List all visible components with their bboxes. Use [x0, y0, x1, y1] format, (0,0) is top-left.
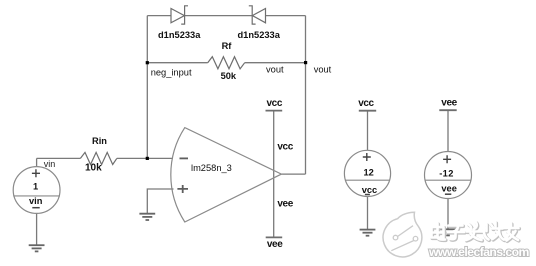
svg-text:12: 12 [364, 167, 374, 177]
resistor Rin zigzag [80, 152, 116, 164]
V2 minus symbol [365, 194, 370, 196]
wire top horizontal left segment [147, 15, 171, 17]
wire left vertical (neg_input net) [146, 16, 148, 159]
V1 chord line [13, 195, 60, 197]
wire Rin to op-amp minus input [117, 157, 173, 159]
svg-text:vcc: vcc [267, 98, 283, 109]
watermark logo inner link [391, 226, 413, 251]
junction dot at Rin / minus input [146, 157, 149, 160]
V2 plus symbol [363, 153, 371, 161]
V2 chord line [345, 179, 389, 181]
op-amp plus input symbol [177, 185, 188, 193]
svg-text:vcc: vcc [277, 141, 293, 152]
V1 minus symbol [32, 207, 39, 209]
wire vee source top stem [447, 110, 449, 151]
watermark logo circle with tail [383, 212, 422, 257]
wire vin source bottom [36, 213, 38, 245]
svg-text:10k: 10k [85, 163, 102, 174]
svg-text:50k: 50k [221, 71, 237, 81]
svg-text:vin: vin [29, 196, 43, 206]
svg-text:Rin: Rin [92, 136, 107, 146]
vee supply bar below op-amp [266, 236, 283, 238]
svg-text:vee: vee [441, 183, 457, 193]
ground at op-amp plus input [139, 214, 155, 220]
svg-text:www.elecfans.com: www.elecfans.com [428, 245, 530, 259]
svg-text:d1n5233a: d1n5233a [158, 30, 201, 40]
svg-text:vee: vee [267, 239, 283, 250]
junction dot vout at mid wire [304, 61, 307, 64]
wire vcc source top stem [367, 111, 369, 151]
diode D1 d1n5233a (left zener, cathode right) [171, 6, 188, 24]
resistor Rf zigzag [208, 57, 245, 69]
voltage source V2 (+12) circle [344, 150, 390, 196]
wire op-amp supply vertical vcc to vee [273, 111, 275, 238]
wire top horizontal right segment [266, 15, 306, 17]
svg-text:vout: vout [314, 65, 332, 75]
voltage source V1 vin circle [13, 167, 60, 214]
V3 minus symbol [445, 193, 451, 195]
svg-text:vee: vee [441, 98, 457, 109]
ground under V1 [29, 245, 45, 251]
svg-text:neg_input: neg_input [151, 67, 192, 77]
V3 chord line [425, 179, 470, 181]
voltage source V3 (-12) circle [425, 152, 472, 199]
svg-text:Rf: Rf [222, 41, 233, 51]
wire mid horizontal right of Rf [245, 62, 306, 64]
wire top horizontal middle segment [185, 15, 253, 17]
svg-text:vee: vee [277, 198, 293, 209]
watermark chinese text 电子发烧友 (stylized strokes) [432, 223, 519, 241]
wire op-amp plus input to ground [147, 189, 173, 214]
ground under V2 [360, 230, 376, 236]
vcc supply bar above op-amp [266, 110, 283, 112]
diode D2 d1n5233a (right zener, cathode left) [249, 6, 266, 24]
svg-text:d1n5233a: d1n5233a [238, 30, 281, 40]
op-amp minus input symbol [180, 157, 189, 159]
wire op-amp output [281, 173, 305, 175]
wire vin source top [37, 158, 81, 167]
svg-text:vout: vout [266, 65, 284, 75]
junction dot neg_input at mid wire [146, 61, 149, 64]
op-amp U1 lm258n_3 body [171, 128, 282, 222]
wire vee source bottom stem [447, 199, 449, 230]
vcc T symbol above V2 [359, 110, 376, 112]
svg-text:vcc: vcc [358, 98, 374, 109]
svg-text:-12: -12 [439, 168, 454, 178]
V1 plus symbol [32, 169, 40, 177]
wire mid horizontal left of Rf [147, 62, 207, 64]
vee T symbol above V3 [439, 109, 456, 111]
ground under V3 [440, 229, 456, 235]
wire right vertical (vout net) [305, 16, 307, 175]
svg-text:vin: vin [44, 159, 56, 169]
V3 plus symbol [443, 155, 451, 163]
wire vcc source bottom stem [367, 196, 369, 229]
svg-text:vcc: vcc [362, 185, 378, 195]
svg-text:1: 1 [33, 182, 38, 192]
svg-text:lm258n_3: lm258n_3 [191, 163, 232, 173]
